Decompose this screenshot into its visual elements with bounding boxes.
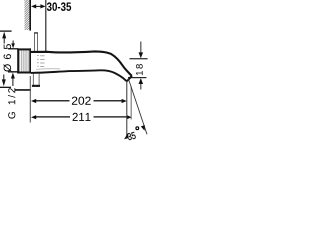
- dimension 30-35 shaft: [34, 6, 43, 7]
- dim 18 bottom tick: [128, 77, 146, 78]
- dimension 30-35 right head: [40, 4, 45, 8]
- dim 18 top tick: [130, 58, 148, 59]
- spout inner contour faint line: [36, 68, 60, 71]
- dim 18 lower arrow: [139, 78, 144, 84]
- wall hatch: [25, 0, 30, 30]
- spout tip reinforcement: [127, 76, 132, 81]
- dim 202 shaft right: [94, 100, 124, 101]
- extension line wall face: [29, 76, 32, 123]
- degree circle: [136, 127, 139, 130]
- dimension 30-35 arrow left head: [31, 4, 36, 8]
- label Ø 6 5 (rotated): [3, 44, 11, 72]
- vertical reference line at tip (211): [130, 86, 133, 120]
- dim 202 right arrow: [122, 99, 127, 103]
- G 1/2 leader line: [15, 89, 31, 91]
- dim 211 left arrow: [31, 115, 36, 119]
- wall face line: [29, 0, 31, 31]
- upper stub (pipe above spout base): [34, 32, 38, 33]
- dim 211 shaft left: [34, 116, 70, 117]
- left overall dim top tick: [0, 31, 12, 32]
- dim Ø65 down arrow: [13, 41, 14, 46]
- dim Ø65 top tick: [8, 48, 18, 49]
- dim 18 upper arrow: [139, 42, 142, 55]
- label 18 (rotated): [136, 64, 143, 75]
- angle arrow on angled line: [141, 125, 145, 131]
- dim 202 left arrow: [31, 99, 36, 103]
- label 211: [73, 113, 91, 121]
- lower stub (pipe below spout): [32, 74, 35, 86]
- dim 211 right arrow: [127, 115, 132, 119]
- left overall dim bottom arrow: [3, 75, 4, 82]
- label 202: [72, 97, 91, 105]
- label G 1/2 (rotated): [8, 88, 15, 118]
- dim 202 shaft left: [34, 100, 70, 101]
- tiny etched marks: [37, 55, 45, 67]
- left overall dim top arrow: [2, 32, 6, 39]
- label 35 (rotated): [127, 132, 136, 141]
- angled 35-degree line: [128, 79, 147, 135]
- angle arrow at vertical line: [124, 133, 129, 139]
- spout bottom edge: [31, 70, 132, 81]
- reference line at escutcheon front: [45, 0, 46, 52]
- dim Ø65 up arrow: [11, 73, 15, 79]
- spout top edge: [31, 51, 132, 76]
- dim Ø65 bottom tick: [8, 71, 19, 72]
- label 30-35: [47, 2, 71, 11]
- threaded nipple block: [18, 49, 31, 72]
- dim 211 shaft right: [94, 116, 128, 117]
- vertical reference line at outlet (202): [126, 81, 127, 137]
- left overall dim bottom tick: [0, 87, 11, 88]
